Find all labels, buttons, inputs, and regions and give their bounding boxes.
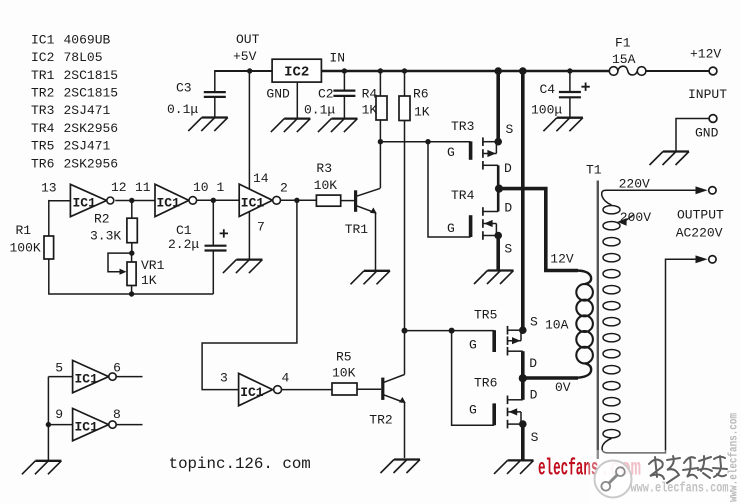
node TR2 collector junction <box>402 328 408 334</box>
svg-text:R5: R5 <box>336 350 352 365</box>
svg-text:IC1: IC1 <box>75 372 99 387</box>
wire C2 to ground <box>343 96 345 119</box>
svg-text:1K: 1K <box>414 104 430 119</box>
svg-text:IC1: IC1 <box>31 32 55 47</box>
ground spare inverter inputs <box>22 461 62 475</box>
node TR5 source <box>519 326 527 334</box>
terminal output 0V side <box>696 255 717 263</box>
node TR4 source <box>494 232 502 240</box>
wire VR1 top lead <box>131 253 133 262</box>
node TR3-TR4 drain output <box>495 185 503 193</box>
svg-text:0.1μ: 0.1μ <box>304 103 335 118</box>
svg-text:1: 1 <box>217 180 225 195</box>
svg-text:1K: 1K <box>362 103 378 118</box>
wire node to R2 top <box>131 201 133 219</box>
node +5V junction <box>247 68 252 73</box>
svg-text:D: D <box>504 201 512 216</box>
svg-text:2SJ471: 2SJ471 <box>64 139 111 154</box>
node TR3 source <box>494 138 502 146</box>
svg-text:D: D <box>530 388 538 403</box>
wire R6 bottom down to TR2 collector node <box>404 121 406 375</box>
svg-text:IC1: IC1 <box>73 196 97 211</box>
wire from fuse F1 to +12V input terminal <box>646 70 709 72</box>
svg-text:VR1: VR1 <box>141 258 165 273</box>
svg-text:1K: 1K <box>141 273 157 288</box>
capacitor C1 electrolytic <box>205 229 229 250</box>
svg-text:2SC1815: 2SC1815 <box>64 86 119 101</box>
wire +12V rail to R4 top <box>379 71 381 96</box>
svg-text:G: G <box>469 338 477 353</box>
svg-text:S: S <box>531 430 539 445</box>
wire gate node down to TR6 gate <box>452 331 495 426</box>
svg-text:R1: R1 <box>16 223 32 238</box>
wire VR1 wiper loop <box>108 253 132 272</box>
svg-text:G: G <box>447 145 455 160</box>
svg-text:TR1: TR1 <box>31 68 55 83</box>
arrowhead TR2 emitter <box>399 397 406 403</box>
fuse F1 15A <box>609 66 646 75</box>
resistor R3 <box>316 195 340 206</box>
resistor R5 <box>332 383 357 395</box>
node TR3-TR4 gate junction <box>425 139 430 144</box>
node TR3 source rail junction <box>494 67 502 75</box>
svg-text:2SK2956: 2SK2956 <box>64 156 119 171</box>
node pin 12 junction <box>129 198 134 203</box>
ground IC1 pin 7 <box>223 260 263 274</box>
svg-text:100K: 100K <box>10 241 41 256</box>
wire TR1 collector diagonal <box>357 188 381 196</box>
svg-text:6: 6 <box>113 361 121 376</box>
svg-text:12: 12 <box>111 180 127 195</box>
node R4 top junction <box>378 68 383 73</box>
wire 12V primary lead <box>499 189 578 271</box>
svg-text:TR1: TR1 <box>345 222 369 237</box>
svg-text:3.3K: 3.3K <box>90 229 121 244</box>
wire IC1 pin 6 output stub <box>117 376 143 378</box>
node pin 2 junction <box>294 198 299 203</box>
node R6 top junction <box>402 68 407 73</box>
svg-text:IC2: IC2 <box>31 50 54 65</box>
wire C1 bottom to feedback rail <box>212 251 214 295</box>
wire C3 top / +5V corner <box>214 70 216 92</box>
node TR5-TR6 drain output <box>519 374 527 382</box>
wire output node to TR4 drain <box>497 189 500 212</box>
wire IC2 GND pin to ground <box>296 82 298 119</box>
wire IC1 pin 4 output to R5 <box>282 389 333 391</box>
wire TR1 collector node to TR3 gate <box>380 141 470 143</box>
transistor TR6 2SK2956 N-MOSFET <box>494 396 523 429</box>
wire +12V rail to C4 top <box>569 71 571 92</box>
svg-text:+5V: +5V <box>233 49 257 64</box>
transformer T1 primary winding 12V-0V 10A <box>576 284 593 363</box>
wire spare inputs to ground <box>47 377 49 461</box>
wire TR2 collector node to TR5 gate <box>405 330 495 332</box>
capacitor C2 <box>333 91 355 96</box>
wire TR4 source to ground <box>496 236 500 271</box>
svg-text:10A: 10A <box>545 318 569 333</box>
svg-text:D: D <box>504 161 512 176</box>
svg-text:S: S <box>506 122 514 137</box>
wire +12V rail from IC2 IN to fuse F1 <box>321 70 609 72</box>
svg-text:D: D <box>529 356 537 371</box>
svg-text:www.elecfans.com: www.elecfans.com <box>631 482 729 497</box>
transistor TR3 2SJ471 P-MOSFET <box>471 137 499 169</box>
wire TR5 drain to output node <box>521 351 525 378</box>
wire secondary 220V top lead to output terminal <box>602 190 696 205</box>
svg-text:IC1: IC1 <box>75 420 99 435</box>
svg-text:TR3: TR3 <box>451 119 474 134</box>
node TR1 collector junction <box>378 139 383 144</box>
wire TR2 emitter to ground <box>384 395 405 458</box>
svg-text:TR2: TR2 <box>369 413 392 428</box>
svg-text:GND: GND <box>695 126 719 141</box>
wire VR1 bottom lead <box>131 286 133 295</box>
svg-text:F1: F1 <box>615 36 631 51</box>
node spare inverter inputs junction <box>46 422 51 427</box>
svg-text:S: S <box>504 242 512 257</box>
node TR6 source <box>519 420 527 428</box>
svg-text:TR4: TR4 <box>31 121 55 136</box>
wire IC1 pin 9 input <box>48 424 72 426</box>
arrowhead VR1 wiper <box>120 269 127 275</box>
wire gate node down to TR4 gate <box>428 142 471 237</box>
wire +12V rail to R6 top <box>404 71 406 96</box>
wire IC1 pin 7 to ground <box>248 212 250 260</box>
wire R1 bottom to bottom feedback rail <box>49 259 214 294</box>
resistor R1 <box>44 236 54 259</box>
svg-text:15A: 15A <box>612 52 636 67</box>
svg-text:TR5: TR5 <box>31 139 54 154</box>
svg-text:IN: IN <box>329 51 345 66</box>
svg-text:www.elecfans.com: www.elecfans.com <box>727 413 741 502</box>
wire 0V primary lead <box>523 376 578 380</box>
svg-text:C1: C1 <box>176 223 192 238</box>
ground C4 <box>543 118 583 132</box>
svg-text:R2: R2 <box>94 212 110 227</box>
node TR5 source rail junction <box>519 67 527 75</box>
svg-text:10K: 10K <box>314 178 338 193</box>
inverter IC1 pins 11-10 <box>155 184 197 216</box>
svg-text:TR3: TR3 <box>31 103 54 118</box>
watermark logo circle <box>595 461 632 498</box>
svg-text:4069UB: 4069UB <box>64 32 111 47</box>
node VR1 bottom junction <box>129 291 134 296</box>
transformer T1 core <box>597 181 599 460</box>
svg-text:C2: C2 <box>318 87 334 102</box>
wire IC1 pin 8 output stub <box>117 424 143 426</box>
inverter IC1 pins 9-8 <box>73 408 117 440</box>
inverter IC1 pins 3-4 <box>239 373 282 405</box>
wire IC1 pin 12 to pin 11 <box>115 200 155 202</box>
wire TR6 source to ground <box>521 424 525 460</box>
svg-text:10K: 10K <box>332 366 356 381</box>
ground input GND terminal <box>650 152 690 166</box>
ground C2 <box>318 119 358 133</box>
transistor TR4 2SK2956 N-MOSFET <box>471 207 499 240</box>
wire secondary bottom lead to output terminal <box>602 259 696 453</box>
svg-text:2SK2956: 2SK2956 <box>64 121 119 136</box>
node pin 10 junction <box>211 198 216 203</box>
wire IC1 pin 13 input <box>49 200 71 202</box>
op-amp U1 inverter IC1 pins 13-12 <box>70 184 113 216</box>
regulator IC2 78L05 box <box>272 59 321 82</box>
ground TR6 source <box>494 460 534 474</box>
wire IC1 pin 5 input <box>48 376 72 378</box>
svg-text:OUTPUT: OUTPUT <box>677 208 724 223</box>
watermark white blob <box>588 450 741 504</box>
svg-text:TR4: TR4 <box>451 188 475 203</box>
svg-text:100μ: 100μ <box>531 103 562 118</box>
svg-text:INPUT: INPUT <box>688 87 727 102</box>
svg-text:topinc.126. com: topinc.126. com <box>169 455 311 473</box>
wire +12V to TR5 source <box>521 70 525 330</box>
svg-text:+12V: +12V <box>690 47 721 62</box>
inverter IC1 pins 1-2 <box>239 184 280 216</box>
wire C3 to ground <box>214 97 216 118</box>
svg-text:IC2: IC2 <box>284 65 309 81</box>
terminal output 220V <box>696 186 717 194</box>
svg-text:AC220V: AC220V <box>676 226 723 241</box>
wire R5 to TR2 base <box>357 388 381 390</box>
wire +12V to TR3 source <box>496 70 500 142</box>
wire R4 bottom to TR1 collector node <box>379 120 381 188</box>
parts list table <box>31 32 118 171</box>
wire +5V to IC1 pin 14 <box>248 71 250 189</box>
resistor R2 <box>127 218 137 243</box>
wire pin 2 node feed to IC1 pin 3 input <box>202 200 297 389</box>
svg-text:GND: GND <box>266 87 290 102</box>
svg-text:4: 4 <box>282 371 290 386</box>
svg-text:7: 7 <box>257 220 265 235</box>
svg-text:220V: 220V <box>619 177 650 192</box>
svg-text:IC1: IC1 <box>157 196 181 211</box>
wire IN node to C2 top <box>343 71 345 91</box>
svg-text:R3: R3 <box>316 161 332 176</box>
svg-text:S: S <box>530 315 538 330</box>
svg-text:10: 10 <box>193 180 209 195</box>
ground TR4 source <box>474 271 514 285</box>
terminal GND input <box>709 115 717 123</box>
svg-text:TR2: TR2 <box>31 86 54 101</box>
ground TR2 emitter <box>381 460 421 474</box>
svg-text:0V: 0V <box>555 380 571 395</box>
svg-text:R4: R4 <box>362 87 378 102</box>
wire IC1 pin 2 output to R3 <box>281 199 317 201</box>
svg-text:14: 14 <box>253 171 269 186</box>
svg-text:T1: T1 <box>586 163 602 178</box>
transistor TR1 2SC1815 base bar <box>354 190 357 212</box>
svg-text:OUT: OUT <box>236 32 260 47</box>
svg-text:200V: 200V <box>620 210 651 225</box>
svg-text:IC1: IC1 <box>240 385 264 400</box>
resistor R6 <box>399 96 410 121</box>
svg-text:2SC1815: 2SC1815 <box>64 68 119 83</box>
svg-text:13: 13 <box>41 181 57 196</box>
wire R2 bottom to VR1 junction <box>131 243 133 253</box>
svg-text:9: 9 <box>55 407 63 422</box>
inverter IC1 pins 5-6 <box>73 360 117 392</box>
node TR5-TR6 gate junction <box>449 328 455 334</box>
capacitor C4 electrolytic <box>559 83 590 98</box>
svg-text:2.2μ: 2.2μ <box>168 237 199 252</box>
svg-text:8: 8 <box>113 407 121 422</box>
terminal +12V input <box>709 67 717 75</box>
wire 0V lead curl into primary <box>576 363 591 378</box>
svg-text:G: G <box>469 403 477 418</box>
svg-text:12V: 12V <box>550 252 574 267</box>
node C4 junction <box>567 68 572 73</box>
wire R3 to TR1 base <box>341 200 354 202</box>
ground IC2 <box>271 119 311 133</box>
watermark chinese brush text <box>649 456 727 483</box>
wire 12V lead curl into primary <box>576 271 591 285</box>
svg-text:IC1: IC1 <box>241 196 265 211</box>
transistor TR2 2SC1815 base bar <box>381 378 384 400</box>
svg-text:3: 3 <box>220 371 228 386</box>
wire C4 to ground <box>569 97 571 117</box>
svg-text:TR6: TR6 <box>31 156 54 171</box>
svg-text:11: 11 <box>135 180 151 195</box>
wire node to C1 top <box>212 200 214 245</box>
wire TR2 collector diagonal <box>384 375 405 383</box>
ground TR1 emitter <box>351 271 391 285</box>
svg-text:TR6: TR6 <box>474 376 497 391</box>
tap arrow 200V <box>617 215 633 226</box>
svg-text:2SJ471: 2SJ471 <box>64 103 111 118</box>
wire IC1 pin 10 to pin 1 <box>196 199 239 201</box>
resistor R4 <box>376 96 387 120</box>
potentiometer VR1 body <box>127 262 136 286</box>
wire input node down to R1 top <box>48 200 50 236</box>
svg-text:0.1μ: 0.1μ <box>167 102 198 117</box>
transistor TR5 2SJ471 P-MOSFET <box>494 326 523 356</box>
svg-text:5: 5 <box>55 361 63 376</box>
svg-text:C3: C3 <box>176 81 192 96</box>
transformer T1 secondary winding 220V <box>603 206 620 438</box>
capacitor C3 <box>204 92 226 97</box>
svg-text:C4: C4 <box>540 82 556 97</box>
node IN junction <box>342 68 347 73</box>
wire +5V rail from C3 corner to IC2 OUT pin <box>215 70 272 72</box>
node R2-VR1 junction <box>129 250 134 255</box>
svg-text:TR5: TR5 <box>474 308 497 323</box>
svg-text:2: 2 <box>280 181 288 196</box>
wire TR3 drain to output node <box>497 165 500 188</box>
wire TR1 emitter to ground <box>357 206 376 271</box>
ground C3 <box>188 118 228 132</box>
svg-text:G: G <box>447 221 455 236</box>
wire output node to TR6 drain <box>521 378 525 400</box>
wire input GND terminal to ground <box>676 119 709 152</box>
arrowhead TR1 emitter <box>370 208 377 214</box>
svg-text:78L05: 78L05 <box>64 50 103 65</box>
svg-text:R6: R6 <box>413 87 429 102</box>
